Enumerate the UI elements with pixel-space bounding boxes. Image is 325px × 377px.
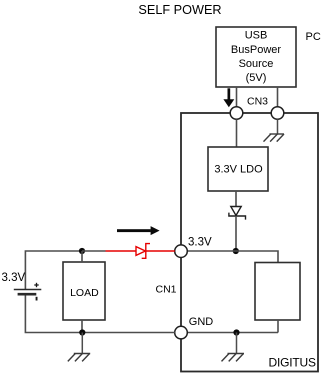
junction load top bbox=[79, 248, 85, 254]
connector CN1 pin GND bbox=[175, 326, 188, 339]
svg-text:3.3V LDO: 3.3V LDO bbox=[214, 164, 263, 176]
USB bus power source box bbox=[216, 27, 296, 87]
wire CN3 pin2 to chassis ground bbox=[277, 119, 279, 134]
device box on module bbox=[255, 263, 300, 321]
wire junction to chassis ground bottom left bbox=[81, 333, 83, 354]
junction GND net bbox=[233, 329, 239, 335]
outer module box DIGITUS bbox=[181, 113, 318, 372]
svg-text:3.3V: 3.3V bbox=[188, 237, 212, 249]
svg-text:USB: USB bbox=[245, 30, 268, 42]
load box bbox=[63, 262, 105, 320]
wire GND junction to chassis ground bbox=[236, 333, 238, 354]
wire USB VBUS to CN3 pin1 bbox=[236, 87, 238, 107]
svg-text:PC: PC bbox=[306, 31, 321, 43]
wire USB GND to CN3 pin2 bbox=[277, 87, 279, 107]
battery minus tick bbox=[36, 297, 38, 301]
junction load bottom bbox=[79, 329, 85, 335]
svg-text:CN3: CN3 bbox=[247, 96, 268, 108]
zener diode D2 bbox=[229, 207, 246, 220]
svg-text:DIGITUS: DIGITUS bbox=[269, 355, 316, 369]
wire junction to red diode anode bbox=[82, 250, 106, 252]
wire red cathode segment to CN1 3.3V pin bbox=[146, 250, 175, 252]
wire LDO output to zener D2 bbox=[235, 191, 237, 207]
wire CN3 pin1 to LDO input bbox=[236, 119, 238, 147]
svg-text:BusPower: BusPower bbox=[231, 44, 281, 56]
svg-text:GND: GND bbox=[189, 316, 214, 328]
ground chassis top right bbox=[264, 134, 285, 142]
wire GND net horizontal bbox=[187, 332, 278, 334]
svg-text:LOAD: LOAD bbox=[70, 287, 99, 299]
connector CN3 pin2 bbox=[271, 107, 284, 120]
wire load bottom to GND junction bbox=[81, 320, 83, 333]
wire device box to GND net bbox=[277, 320, 279, 333]
arrow current flow over red diode bbox=[117, 226, 160, 235]
wire battery plus to load junction bbox=[25, 251, 82, 290]
svg-text:SELF POWER: SELF POWER bbox=[138, 3, 221, 17]
wire zener D2 to 3.3V net bbox=[235, 216, 237, 251]
connector CN1 pin 3.3V bbox=[175, 245, 188, 258]
connector CN3 pin1 bbox=[230, 107, 243, 120]
wire battery minus to GND rail to CN1 GND pin bbox=[25, 294, 174, 332]
arrow current flow into CN3 bbox=[223, 88, 234, 107]
svg-text:3.3V: 3.3V bbox=[2, 272, 26, 284]
junction 3.3V net bbox=[233, 248, 239, 254]
wire junction to load top bbox=[81, 251, 83, 262]
wire red anode segment bbox=[106, 250, 137, 252]
zener diode D1 red bbox=[136, 244, 150, 259]
svg-text:Source: Source bbox=[239, 58, 274, 70]
svg-text:CN1: CN1 bbox=[156, 284, 177, 296]
battery BT1 positive plate bbox=[14, 289, 42, 291]
battery BT1 negative plate bbox=[18, 293, 37, 296]
regulator U1 3.3V LDO bbox=[208, 147, 268, 191]
wire 3.3V net horizontal and down to load box bbox=[187, 251, 278, 263]
ground chassis bottom left bbox=[68, 354, 90, 362]
battery plus sign bbox=[34, 283, 38, 287]
ground chassis bottom middle bbox=[222, 354, 245, 362]
svg-text:(5V): (5V) bbox=[246, 72, 267, 84]
